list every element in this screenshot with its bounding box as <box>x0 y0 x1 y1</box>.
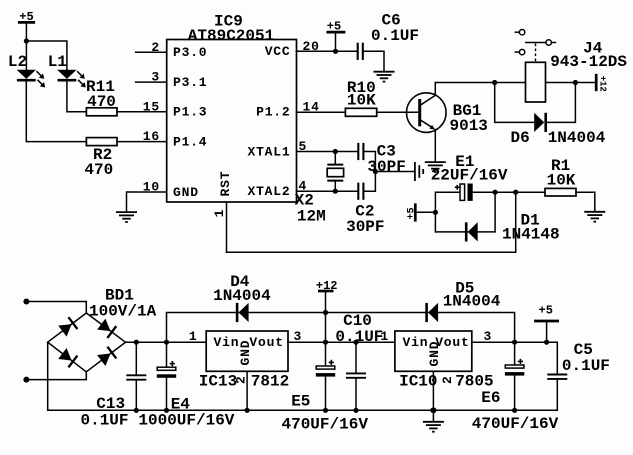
wire D1 to node <box>478 192 495 232</box>
node input terminal bottom <box>23 377 29 383</box>
node relay rail left <box>492 80 497 85</box>
svg-text:+5: +5 <box>406 207 417 219</box>
svg-text:E6: E6 <box>481 389 500 407</box>
ground main rail <box>423 410 444 431</box>
svg-text:VCC: VCC <box>265 44 291 59</box>
svg-text:Vin: Vin <box>214 335 240 350</box>
capacitor E1 22UF/16V <box>431 153 508 201</box>
node +5/E1/D1 branch <box>433 210 438 215</box>
resistor R2 470 <box>84 138 117 179</box>
capacitor C2 30PF <box>346 183 384 236</box>
wire branch to LED L1 <box>26 41 67 70</box>
node E4/D4 <box>164 340 169 345</box>
wire R10 to base <box>377 111 419 113</box>
diode D4 1N4004 <box>213 273 271 322</box>
svg-text:E5: E5 <box>291 393 310 411</box>
node rail C10 <box>353 408 358 413</box>
wire bridge right to IC13 Vin <box>126 341 207 343</box>
wire C3 to junction <box>364 152 376 172</box>
node +12/E5 <box>323 340 328 345</box>
svg-text:10K: 10K <box>347 92 376 110</box>
svg-text:1N4148: 1N4148 <box>502 225 560 243</box>
power +5 above C5 <box>534 303 559 342</box>
svg-text:P3.1: P3.1 <box>173 75 207 90</box>
wire D6 loop right <box>547 83 576 123</box>
svg-text:0.1UF: 0.1UF <box>562 357 610 375</box>
node L1/L2 branch <box>24 38 29 43</box>
svg-text:16: 16 <box>143 129 160 144</box>
svg-text:9013: 9013 <box>450 117 488 135</box>
wire collector up to relay rail <box>435 83 525 96</box>
svg-text:2: 2 <box>151 40 160 55</box>
ground sideways (XTAL caps) <box>415 162 423 181</box>
capacitor C3 30PF <box>358 142 406 176</box>
svg-text:0.1UF: 0.1UF <box>371 27 419 45</box>
resistor R1 10K <box>545 157 576 196</box>
LED L1 <box>48 53 86 88</box>
capacitor E5 470UF/16V <box>282 342 369 433</box>
node E1/D1 right <box>493 190 498 195</box>
node rail IC10 gnd <box>430 407 436 413</box>
wire E1 right lead to R1 <box>473 191 545 193</box>
wire VCC pin20 to C6 <box>297 50 358 52</box>
svg-text:30PF: 30PF <box>346 218 384 236</box>
svg-text:1N4004: 1N4004 <box>213 287 271 305</box>
resistor R11 470 <box>86 78 117 116</box>
wire IC13 out to IC10 in <box>288 341 395 343</box>
svg-text:22UF/16V: 22UF/16V <box>431 166 508 184</box>
power +5 top-left <box>18 10 35 24</box>
svg-text:C13: C13 <box>96 395 125 413</box>
svg-text:7805: 7805 <box>455 373 493 391</box>
node C10 top <box>353 340 358 345</box>
wire IC10 gnd pin <box>432 371 434 410</box>
wire L2 to R2 <box>26 81 86 142</box>
wire D4 to +12 riser <box>249 312 325 314</box>
wire relay right to +12 <box>546 82 597 84</box>
svg-text:0.1UF: 0.1UF <box>81 411 129 429</box>
wire gnd rail <box>48 409 558 411</box>
svg-text:470: 470 <box>87 93 116 111</box>
wire pin2 stub <box>136 51 167 53</box>
svg-text:470: 470 <box>84 161 113 179</box>
crystal X2 12M <box>295 152 344 226</box>
wire IC13 gnd pin <box>246 371 248 410</box>
svg-text:10: 10 <box>143 180 160 195</box>
op-amp IC9 AT89C2051 <box>167 12 297 202</box>
node C13 top <box>134 340 139 345</box>
svg-text:GND: GND <box>238 340 253 366</box>
ground emitter <box>425 162 446 172</box>
power +5 at C6 <box>326 20 345 52</box>
power +5 side (reset) <box>406 203 435 221</box>
node rail IC13 gnd <box>245 408 250 413</box>
svg-text:10K: 10K <box>547 172 576 190</box>
svg-text:470UF/16V: 470UF/16V <box>282 416 369 434</box>
svg-text:943-12DS: 943-12DS <box>550 53 627 71</box>
regulator IC13 7812 <box>199 331 289 390</box>
svg-text:XTAL2: XTAL2 <box>247 184 290 199</box>
node +5 riser <box>544 340 549 345</box>
svg-text:P1.4: P1.4 <box>173 134 207 149</box>
svg-text:L2: L2 <box>8 53 27 71</box>
svg-text:AT89C2051: AT89C2051 <box>188 27 274 45</box>
svg-text:1N4004: 1N4004 <box>548 129 606 147</box>
node RST riser <box>513 190 518 195</box>
node relay rail right <box>573 80 578 85</box>
svg-text:15: 15 <box>143 99 160 114</box>
regulator IC10 7805 <box>395 331 494 391</box>
power +12 relay <box>596 74 607 92</box>
svg-text:P3.0: P3.0 <box>173 45 207 60</box>
node rail E6 <box>512 408 517 413</box>
svg-text:Vout: Vout <box>249 335 283 350</box>
transistor BG1 9013 <box>407 93 488 135</box>
wire R1 to ground <box>576 192 595 211</box>
wire C6 to ground <box>363 51 384 71</box>
wire C2 to junction <box>364 172 376 192</box>
diode D5 1N4004 <box>427 280 501 323</box>
svg-text:30PF: 30PF <box>367 158 405 176</box>
svg-text:1: 1 <box>212 209 227 218</box>
wire pin10 GND <box>127 192 167 212</box>
wire input bottom to bridge <box>26 372 86 380</box>
diode D1 1N4148 <box>466 212 559 244</box>
ground R1 <box>584 212 605 222</box>
svg-text:3: 3 <box>151 70 160 85</box>
wire D5 line left <box>326 312 429 314</box>
svg-text:P1.2: P1.2 <box>256 105 290 120</box>
relay J4 943-12DS <box>515 30 627 103</box>
svg-text:2: 2 <box>440 375 455 384</box>
svg-text:100V/1A: 100V/1A <box>89 303 157 321</box>
wire emitter to ground <box>434 130 436 162</box>
wire E1 left lead <box>435 191 460 193</box>
wire +5 to LED L2 <box>25 22 27 69</box>
node rail C13 <box>134 408 139 413</box>
wire R11 to pin15 <box>117 111 167 113</box>
svg-text:7812: 7812 <box>251 372 289 390</box>
capacitor C13 0.1UF <box>81 342 147 429</box>
ground IC9 pin10 <box>116 212 137 222</box>
wire input top to bridge <box>26 302 86 314</box>
svg-text:Vin: Vin <box>403 335 429 350</box>
svg-text:1000UF/16V: 1000UF/16V <box>138 411 234 429</box>
capacitor C10 0.1UF <box>335 312 383 410</box>
svg-text:P1.3: P1.3 <box>173 105 207 120</box>
svg-text:1: 1 <box>189 329 198 344</box>
svg-text:GND: GND <box>427 341 442 367</box>
wire XTAL1 pin5 <box>297 151 359 153</box>
capacitor C5 0.1UF <box>547 341 610 410</box>
node rail E5 <box>323 408 328 413</box>
diode D6 1N4004 <box>511 113 606 147</box>
svg-text:1: 1 <box>380 329 389 344</box>
node rail E4 <box>164 408 169 413</box>
wire D4 riser <box>167 313 239 343</box>
svg-text:XTAL1: XTAL1 <box>247 144 290 159</box>
wire junction to side ground <box>375 171 413 173</box>
wire bridge left to gnd rail <box>47 342 49 410</box>
capacitor E4 1000UF/16V <box>138 342 234 429</box>
wire D1 branch <box>435 231 467 233</box>
bridge rectifier BD1 100V/1A <box>48 286 157 372</box>
ground C6 <box>374 72 395 82</box>
svg-text:GND: GND <box>173 185 199 200</box>
svg-text:D6: D6 <box>511 129 530 147</box>
LED L2 <box>8 53 45 88</box>
svg-text:470UF/16V: 470UF/16V <box>472 415 559 433</box>
wire XTAL2 pin4 <box>297 190 359 192</box>
wire RST pin1 path <box>227 192 516 252</box>
wire R2 to pin16 <box>117 141 167 143</box>
svg-text:IC13: IC13 <box>199 372 237 390</box>
wire IC10 out line <box>472 342 558 374</box>
wire D6 loop left <box>495 83 535 123</box>
node D4/D5 cross <box>323 310 328 315</box>
wire L1 to R11 <box>67 81 87 112</box>
svg-text:RST: RST <box>218 171 233 197</box>
svg-text:0.1UF: 0.1UF <box>335 328 383 346</box>
node input terminal top <box>23 299 29 305</box>
node E6 top <box>512 340 517 345</box>
svg-text:+5: +5 <box>539 303 553 317</box>
svg-text:12M: 12M <box>297 208 326 226</box>
node XTAL2 <box>333 189 338 194</box>
power +12 above E5 <box>316 279 338 342</box>
capacitor C6 0.1UF <box>358 11 419 60</box>
capacitor E6 470UF/16V <box>472 342 559 433</box>
svg-text:IC10: IC10 <box>399 373 437 391</box>
node VCC junction <box>333 49 338 54</box>
node XTAL1 <box>333 149 338 154</box>
svg-text:L1: L1 <box>48 53 67 71</box>
resistor R10 10K <box>345 79 376 116</box>
wire D5 right to +5 node <box>439 313 515 343</box>
svg-text:+12: +12 <box>598 76 608 92</box>
wire pin14 to R10 <box>297 111 346 113</box>
svg-text:1N4004: 1N4004 <box>443 293 501 311</box>
node C2/C3 <box>373 169 378 174</box>
wire pin3 stub <box>136 81 167 83</box>
wire E1/D1 left vertical <box>434 192 436 232</box>
